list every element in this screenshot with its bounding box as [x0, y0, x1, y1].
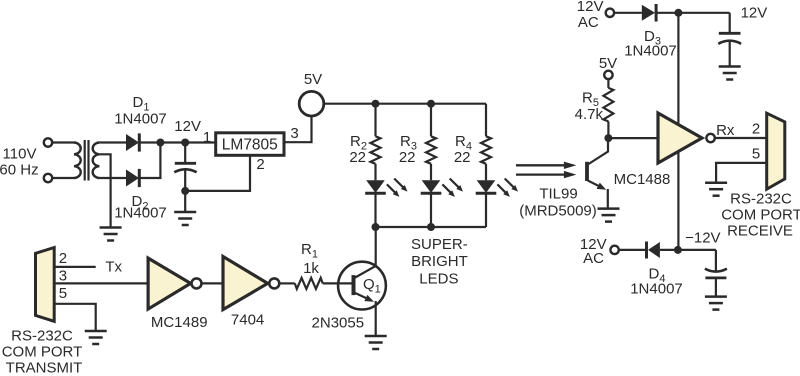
svg-text:TIL99: TIL99 — [539, 186, 577, 203]
resistor branch x=375.5 — [371, 136, 381, 163]
wire center tap — [99, 154, 110, 227]
label -12V — [685, 230, 720, 247]
wire — [374, 193, 376, 227]
label D4 — [649, 266, 666, 286]
svg-text:TRANSMIT: TRANSMIT — [6, 360, 83, 376]
svg-text:2: 2 — [752, 121, 760, 138]
label 7404 — [231, 312, 264, 329]
svg-text:3: 3 — [290, 125, 298, 142]
terminal 5V — [299, 91, 324, 116]
pin 1 label — [203, 129, 211, 146]
label Q1 — [363, 276, 381, 296]
regulator LM7805 — [216, 133, 284, 156]
ground (pin5) — [85, 331, 107, 344]
svg-text:4.7k: 4.7k — [575, 106, 604, 123]
label R3 — [399, 133, 417, 166]
resistor R5 — [603, 88, 613, 122]
svg-text:RECEIVE: RECEIVE — [727, 223, 793, 240]
svg-text:−12V: −12V — [685, 230, 720, 247]
LED — [476, 180, 497, 193]
label R1 1k — [301, 241, 319, 277]
svg-text:LEDS: LEDS — [419, 271, 458, 288]
gate 7404 — [223, 257, 279, 310]
svg-text:2: 2 — [59, 250, 67, 267]
svg-text:RS-232C: RS-232C — [11, 328, 73, 345]
wire — [374, 104, 376, 137]
LED arrows — [387, 179, 408, 197]
svg-text:1N4007: 1N4007 — [114, 205, 167, 222]
connector RS-232 transmit — [36, 248, 55, 322]
junction — [156, 139, 164, 147]
label RS-232C COM PORT TRANSMIT — [2, 328, 83, 376]
svg-text:22: 22 — [399, 149, 416, 166]
wire — [607, 121, 609, 138]
svg-text:22: 22 — [349, 149, 366, 166]
wire — [619, 249, 647, 251]
wire 5V rail — [324, 103, 486, 105]
wire — [485, 104, 487, 137]
label D1 — [133, 94, 150, 114]
svg-text:5: 5 — [59, 285, 67, 302]
svg-text:LM7805: LM7805 — [222, 136, 278, 153]
svg-text:22: 22 — [454, 149, 471, 166]
svg-text:5V: 5V — [304, 71, 322, 88]
label 12V AC — [577, 0, 604, 31]
svg-text:AC: AC — [583, 250, 604, 267]
label 5V — [599, 55, 617, 72]
wire — [485, 193, 487, 227]
svg-text:7404: 7404 — [231, 312, 264, 329]
label 12V AC — [580, 236, 607, 267]
transformer T1 core — [85, 140, 89, 181]
wire LED bottom rail — [376, 226, 487, 228]
wire — [608, 137, 658, 139]
pin 3 label — [290, 125, 298, 142]
LED — [365, 180, 386, 193]
svg-text:(MRD5009): (MRD5009) — [519, 202, 597, 219]
wire — [485, 164, 487, 181]
wire — [430, 104, 432, 137]
diode D1 — [126, 133, 139, 151]
svg-text:RS-232C: RS-232C — [730, 191, 792, 208]
wire — [656, 12, 730, 14]
svg-text:12V: 12V — [174, 118, 201, 135]
junction — [372, 100, 380, 108]
pin 5 label — [752, 146, 760, 163]
svg-text:BRIGHT: BRIGHT — [411, 253, 468, 270]
terminal 110V bottom — [44, 174, 52, 182]
svg-text:60 Hz: 60 Hz — [0, 161, 39, 178]
pin 2 label — [256, 156, 264, 173]
diode D3 — [642, 4, 656, 22]
transformer T1 secondary — [93, 143, 100, 178]
ground (C4) — [705, 297, 727, 310]
wire — [430, 164, 432, 181]
pin 2 label — [59, 250, 67, 267]
label Tx — [105, 259, 122, 276]
wire Rx — [715, 137, 766, 139]
wire collector — [355, 227, 376, 278]
wire — [52, 177, 74, 179]
pin 2 label — [752, 121, 760, 138]
wire pin3 — [284, 116, 312, 142]
wire — [139, 143, 160, 179]
terminal 110V top — [44, 138, 52, 146]
LED — [421, 180, 442, 193]
svg-text:Tx: Tx — [105, 259, 122, 276]
svg-text:Rx: Rx — [716, 122, 735, 139]
ground (receive) — [705, 183, 727, 196]
wire — [323, 282, 353, 284]
wire — [99, 141, 126, 143]
wire — [52, 141, 74, 143]
capacitor C1 — [174, 143, 196, 213]
junction — [674, 246, 682, 254]
label D2 — [132, 193, 149, 213]
wire — [280, 282, 295, 284]
terminal 12V AC bottom — [610, 246, 618, 254]
gate MC1489 — [148, 258, 201, 309]
svg-text:MC1488: MC1488 — [614, 171, 671, 188]
svg-text:1N4007: 1N4007 — [630, 281, 683, 298]
svg-text:5: 5 — [752, 146, 760, 163]
ground (C3) — [719, 67, 741, 80]
wire — [202, 282, 223, 284]
svg-text:AC: AC — [578, 14, 599, 31]
LED arrows — [442, 179, 463, 197]
svg-text:3: 3 — [59, 267, 67, 284]
ground (Q1) — [365, 336, 387, 349]
label D1 value — [114, 111, 167, 128]
svg-text:1k: 1k — [303, 260, 319, 277]
label R2 — [349, 133, 367, 166]
svg-text:2: 2 — [256, 156, 264, 173]
light arrow 1 — [516, 162, 576, 169]
label MC1489 — [151, 314, 208, 331]
svg-text:110V: 110V — [3, 146, 37, 163]
label 2N3055 — [312, 315, 365, 332]
capacitor C4 — [705, 250, 727, 297]
ground (TIL99) — [598, 209, 620, 222]
svg-text:1: 1 — [203, 129, 211, 146]
wire — [99, 177, 126, 179]
label R4 — [454, 133, 472, 166]
light arrow 2 — [516, 171, 576, 178]
junction — [674, 9, 682, 17]
phototransistor TIL99 — [587, 138, 608, 181]
label 12V — [174, 118, 201, 135]
wire — [374, 164, 376, 181]
emitter — [355, 293, 374, 302]
terminal 12V AC top — [606, 9, 614, 17]
label RS-232C COM PORT RECEIVE — [721, 191, 800, 240]
svg-text:12V: 12V — [741, 5, 768, 22]
label 5V — [304, 71, 322, 88]
wire emitter — [375, 301, 377, 336]
junction — [181, 139, 189, 147]
emitter (TIL99) — [588, 181, 608, 209]
wire pin5 — [54, 304, 95, 331]
gate MC1488 — [658, 113, 715, 163]
svg-text:1N4007: 1N4007 — [624, 43, 677, 60]
wire — [607, 79, 609, 88]
wire pin5 — [716, 163, 767, 182]
junction — [427, 100, 435, 108]
ground (C1) — [174, 212, 196, 225]
label R5 4.7k — [575, 90, 604, 124]
label TIL99 (MRD5009) — [519, 186, 597, 220]
label Rx — [716, 122, 735, 139]
junction — [372, 223, 380, 231]
label D3 value — [624, 43, 677, 60]
svg-text:SUPER-: SUPER- — [411, 236, 468, 253]
wire — [660, 249, 716, 251]
svg-text:MC1489: MC1489 — [151, 314, 208, 331]
terminal 5V (R5) — [604, 71, 612, 79]
label D3 — [644, 28, 661, 48]
ground (transformer) — [100, 228, 122, 241]
junction — [427, 223, 435, 231]
svg-text:12V: 12V — [577, 0, 604, 15]
svg-text:1N4007: 1N4007 — [114, 111, 167, 128]
svg-text:2N3055: 2N3055 — [312, 315, 365, 332]
resistor branch x=431 — [426, 136, 436, 163]
svg-text:COM PORT: COM PORT — [721, 207, 800, 224]
label D2 value — [114, 205, 167, 222]
svg-text:5V: 5V — [599, 55, 617, 72]
wire — [430, 193, 432, 227]
capacitor C3 — [718, 13, 741, 67]
label 110V 60 Hz — [0, 146, 39, 179]
pin 3 label — [59, 267, 67, 284]
transistor Q1 — [338, 262, 386, 310]
transformer T1 primary — [74, 143, 81, 178]
wire pin3 — [54, 282, 148, 284]
resistor R1 — [295, 278, 323, 289]
connector RS-232 receive — [767, 113, 785, 189]
label 12V — [741, 5, 768, 22]
wire main rail — [139, 141, 215, 143]
svg-text:COM PORT: COM PORT — [2, 344, 83, 361]
label MC1488 — [614, 171, 671, 188]
wire pin2 stub — [54, 266, 95, 268]
wire power vertical — [677, 13, 679, 250]
pin 5 label — [59, 285, 67, 302]
junction — [604, 134, 612, 142]
LED arrows — [497, 179, 518, 197]
wire pin2 — [185, 155, 250, 191]
resistor branch x=486 — [481, 136, 491, 163]
label D4 value — [630, 281, 683, 298]
label SUPER-BRIGHT LEDS — [411, 236, 468, 288]
diode D4 — [647, 242, 660, 259]
diode D2 — [126, 169, 139, 187]
wire — [614, 12, 642, 14]
junction — [181, 187, 189, 195]
